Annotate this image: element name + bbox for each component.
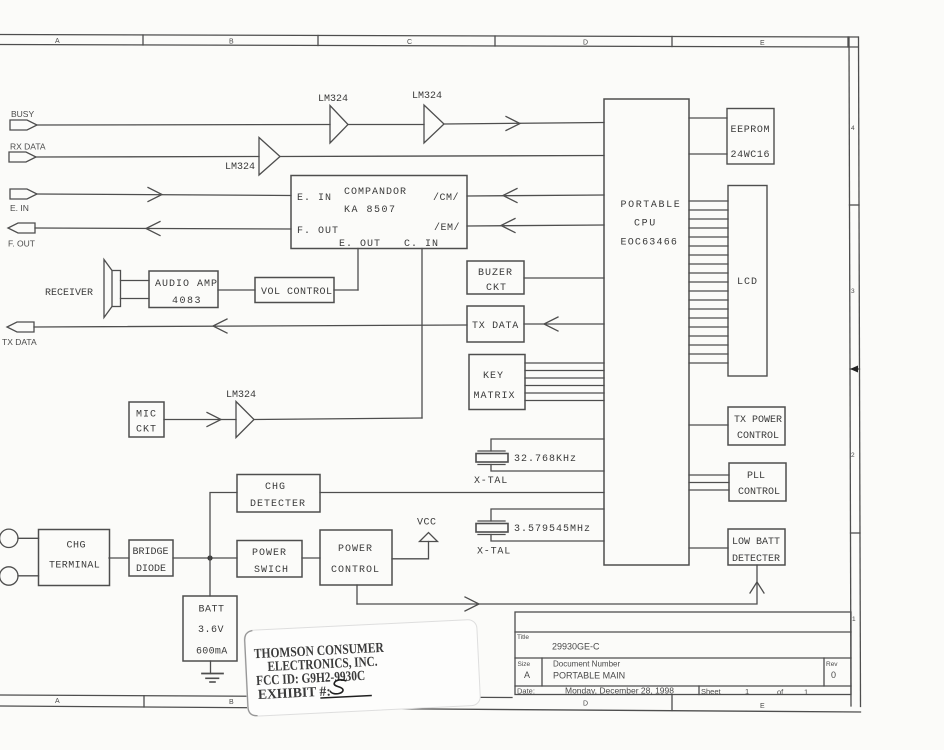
svg-text:PORTABLE: PORTABLE: [621, 200, 682, 211]
wire: [109, 557, 129, 559]
wire: [689, 117, 727, 119]
wire vcc: [392, 542, 429, 559]
wire low batt sense: [357, 565, 764, 611]
svg-text:TX POWER: TX POWER: [734, 415, 782, 426]
svg-text:PORTABLE MAIN: PORTABLE MAIN: [553, 671, 625, 681]
wire /CM/: [467, 189, 604, 203]
svg-text:CKT: CKT: [136, 425, 157, 436]
svg-text:24WC16: 24WC16: [731, 150, 771, 161]
op-amp U2C LM324: [225, 138, 280, 176]
svg-text:LM324: LM324: [226, 390, 256, 401]
svg-text:3: 3: [851, 288, 855, 295]
lcd bus wires: [689, 201, 728, 363]
vcc symbol: [417, 518, 438, 542]
chg detecter: [237, 475, 320, 513]
svg-text:CKT: CKT: [486, 283, 507, 294]
svg-text:1: 1: [804, 688, 808, 697]
svg-text:EOC63466: EOC63466: [621, 238, 679, 249]
svg-text:C: C: [407, 39, 412, 46]
portable cpu EOC63466: [604, 99, 689, 565]
svg-text:E. IN: E. IN: [297, 193, 332, 204]
wire: [254, 418, 422, 420]
crystal X2 3.579545MHz: [476, 509, 604, 558]
svg-text:BUZER: BUZER: [478, 268, 513, 279]
wire: [210, 493, 237, 597]
svg-text:COMPANDOR: COMPANDOR: [344, 187, 407, 198]
compandor U1 KA8507: [291, 176, 467, 251]
battery BATT: [183, 596, 237, 661]
svg-text:D: D: [583, 40, 588, 47]
svg-text:F. OUT: F. OUT: [297, 226, 339, 237]
wire: [444, 117, 604, 131]
svg-text:B: B: [229, 699, 234, 706]
border frame top band: [0, 35, 858, 48]
svg-text:Document Number: Document Number: [553, 660, 620, 669]
pll control: [729, 463, 786, 501]
border frame right edge: [849, 37, 861, 707]
wire: [689, 153, 727, 155]
wire: [218, 289, 255, 291]
svg-text:3.579545MHz: 3.579545MHz: [514, 524, 591, 535]
wire: [689, 547, 728, 549]
svg-text:2: 2: [851, 452, 855, 459]
connector BUSY: [10, 109, 37, 130]
svg-text:0: 0: [831, 670, 836, 680]
wire: [689, 424, 728, 426]
svg-text:RECEIVER: RECEIVER: [45, 288, 93, 299]
svg-text:DETECTER: DETECTER: [250, 499, 306, 510]
svg-text:BATT: BATT: [199, 605, 225, 616]
connector TX DATA: [2, 322, 37, 347]
wire: [18, 537, 39, 539]
power swich: [237, 541, 302, 578]
svg-text:B: B: [229, 39, 234, 46]
svg-text:BRIDGE: BRIDGE: [133, 547, 169, 558]
svg-text:E. IN: E. IN: [10, 203, 29, 213]
power control: [320, 530, 392, 585]
wire E.OUT: [357, 249, 359, 291]
svg-text:PLL: PLL: [747, 471, 765, 482]
svg-text:Date:: Date:: [517, 687, 535, 696]
svg-text:CONTROL: CONTROL: [331, 565, 380, 576]
svg-text:/CM/: /CM/: [433, 192, 459, 204]
svg-text:LM324: LM324: [412, 91, 442, 102]
key matrix wires: [525, 363, 604, 401]
wire: [348, 124, 424, 126]
svg-text:LM324: LM324: [318, 94, 348, 105]
wire: [37, 124, 330, 127]
wire: [524, 277, 604, 279]
wire: [35, 222, 291, 236]
svg-text:1: 1: [852, 616, 856, 623]
svg-text:SWICH: SWICH: [254, 565, 289, 576]
vol control: [255, 278, 334, 303]
connector F.OUT: [8, 223, 35, 249]
svg-text:E: E: [760, 703, 765, 710]
svg-text:TX DATA: TX DATA: [2, 337, 37, 347]
svg-text:A: A: [55, 38, 60, 45]
svg-text:DIODE: DIODE: [136, 564, 166, 575]
connector RX DATA: [9, 142, 46, 163]
svg-text:Monday, December 28, 1998: Monday, December 28, 1998: [565, 686, 674, 696]
svg-text:VCC: VCC: [417, 518, 437, 529]
pll wires: [689, 475, 729, 490]
buzer ckt: [467, 261, 524, 294]
svg-text:4: 4: [851, 125, 855, 132]
chg terminal: [39, 530, 110, 586]
wire chg detecter to cpu: [320, 492, 604, 494]
connector E.IN: [10, 189, 37, 213]
svg-text:CHG: CHG: [67, 541, 87, 552]
wire: [34, 319, 467, 333]
svg-text:VOL CONTROL: VOL CONTROL: [261, 287, 333, 298]
svg-text:A: A: [524, 670, 530, 680]
svg-text:Size: Size: [518, 661, 531, 668]
ground: [202, 661, 223, 682]
svg-text:LOW BATT: LOW BATT: [732, 537, 780, 548]
svg-text:MIC: MIC: [136, 410, 157, 421]
svg-text:TX DATA: TX DATA: [472, 321, 519, 332]
lcd: [728, 186, 767, 377]
svg-text:of: of: [777, 688, 784, 697]
svg-text:E: E: [760, 40, 765, 47]
wire: [18, 575, 39, 577]
handwritten 5: [330, 680, 347, 695]
svg-text:KEY: KEY: [483, 371, 504, 382]
svg-text:Rev: Rev: [826, 661, 838, 668]
audio amp 4083: [149, 271, 218, 308]
svg-text:RX DATA: RX DATA: [10, 142, 46, 152]
svg-text:KA 8507: KA 8507: [344, 205, 397, 216]
crystal X1 32.768KHz: [474, 439, 604, 487]
svg-text:29930GE-C: 29930GE-C: [552, 642, 600, 652]
wire: [334, 289, 358, 291]
junction: [207, 555, 212, 560]
svg-text:3.6V: 3.6V: [198, 625, 224, 636]
svg-text:AUDIO AMP: AUDIO AMP: [155, 279, 218, 290]
wire C.IN: [421, 249, 423, 419]
svg-text:600mA: 600mA: [196, 647, 228, 658]
svg-text:POWER: POWER: [252, 548, 287, 559]
wire /EM/: [467, 219, 604, 233]
low batt detecter: [728, 529, 785, 565]
svg-text:BUSY: BUSY: [11, 109, 34, 119]
svg-text:F. OUT: F. OUT: [8, 239, 35, 249]
wire: [164, 413, 236, 427]
svg-text:32.768KHz: 32.768KHz: [514, 454, 577, 465]
svg-text:1: 1: [745, 687, 749, 696]
svg-text:E. OUT: E. OUT: [339, 239, 381, 250]
svg-text:/EM/: /EM/: [434, 222, 460, 234]
op-amp U2A LM324: [318, 94, 348, 143]
speaker receiver: [45, 260, 149, 318]
op-amp U2D LM324: [226, 390, 256, 438]
svg-text:X-TAL: X-TAL: [474, 476, 508, 487]
svg-text:TERMINAL: TERMINAL: [49, 561, 100, 572]
svg-text:CPU: CPU: [634, 219, 657, 230]
svg-text:EEPROM: EEPROM: [731, 125, 771, 136]
stamp thomson label: [244, 619, 481, 716]
bridge diode: [129, 540, 173, 576]
wire: [302, 557, 320, 559]
svg-text:LCD: LCD: [737, 277, 758, 288]
tx data box: [467, 306, 524, 342]
wire: [280, 156, 604, 157]
wire: [37, 188, 291, 202]
svg-text:MATRIX: MATRIX: [474, 391, 516, 402]
svg-text:LM324: LM324: [225, 162, 255, 173]
svg-text:CONTROL: CONTROL: [738, 487, 780, 498]
svg-text:Sheet: Sheet: [701, 687, 722, 696]
svg-text:4083: 4083: [172, 296, 202, 307]
svg-text:CHG: CHG: [265, 482, 286, 493]
op-amp U2B LM324: [412, 91, 444, 143]
wire: [356, 585, 358, 604]
svg-text:DETECTER: DETECTER: [732, 554, 780, 565]
svg-text:X-TAL: X-TAL: [477, 547, 511, 558]
title block: [515, 612, 851, 697]
border frame bottom band: [0, 695, 861, 712]
wire: [173, 557, 237, 559]
svg-text:A: A: [55, 698, 60, 705]
wire: [36, 156, 259, 159]
key matrix: [469, 355, 525, 410]
wire: [524, 317, 604, 331]
tx power control: [728, 407, 785, 445]
chg terminal circles: [0, 529, 18, 585]
svg-text:CONTROL: CONTROL: [737, 431, 779, 442]
svg-text:Title: Title: [517, 634, 529, 641]
eeprom 24WC16: [727, 109, 774, 165]
svg-text:D: D: [583, 701, 588, 708]
svg-text:POWER: POWER: [338, 544, 373, 555]
mic ckt: [129, 402, 164, 437]
